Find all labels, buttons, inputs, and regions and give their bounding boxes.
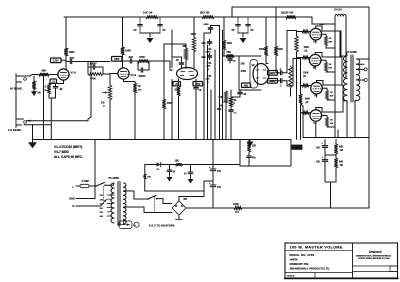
svg-text:100K: 100K xyxy=(191,34,197,36)
wire filter join a xyxy=(140,33,160,37)
switch linkage dashed xyxy=(103,186,105,204)
wire tone slider bus b xyxy=(207,45,209,140)
svg-text:V1-3 ECC83 (BRIT): V1-3 ECC83 (BRIT) xyxy=(54,145,82,149)
wire signal to volume xyxy=(73,61,111,63)
svg-text:820: 820 xyxy=(175,89,180,92)
wire choke left leg xyxy=(312,16,335,24)
wire V5 plate xyxy=(315,31,341,57)
wire V1B cathode xyxy=(124,79,136,83)
wire V5 cathode xyxy=(314,66,316,69)
wire tone vertical b xyxy=(222,30,224,140)
wire to tone node xyxy=(149,60,164,62)
wire PT primary top xyxy=(112,183,114,195)
svg-text:150K: 150K xyxy=(304,47,310,49)
svg-text:50: 50 xyxy=(251,28,254,32)
wire V1B grid xyxy=(110,74,118,86)
switch mains xyxy=(95,183,113,187)
wire OT primary ct xyxy=(346,52,347,78)
wire V4 plate xyxy=(316,26,340,31)
svg-text:225: 225 xyxy=(100,212,104,214)
inductor choke CH 3H xyxy=(334,9,346,17)
svg-text:(2): (2) xyxy=(306,102,309,104)
wire V1B plate node xyxy=(121,55,124,68)
svg-text:.22: .22 xyxy=(176,60,180,62)
svg-text:V5: V5 xyxy=(313,66,317,70)
svg-text:P: P xyxy=(234,103,236,105)
svg-text:10K: 10K xyxy=(241,64,246,66)
ground bus arrow xyxy=(247,140,254,148)
svg-text:A DIVISION OF GULF + WESTERN S: A DIVISION OF GULF + WESTERN SYSTEMS CO. xyxy=(356,255,393,258)
wire V7 cathode xyxy=(315,121,317,137)
wire B+ rail segment B xyxy=(158,16,202,18)
resistor 56K bleed b xyxy=(334,154,343,182)
svg-text:470R: 470R xyxy=(241,70,247,73)
wire PI inner xyxy=(250,60,258,89)
svg-text:50: 50 xyxy=(134,28,137,32)
label LO SENS xyxy=(8,128,22,132)
capacitor .1 PI out b xyxy=(278,79,288,88)
svg-text:1K: 1K xyxy=(329,38,332,40)
resistor 100K V1B plate xyxy=(121,47,131,55)
resistor 100K PI feed xyxy=(222,40,232,56)
svg-text:+: + xyxy=(322,142,324,145)
resistor 150K(2) grid a xyxy=(295,36,310,52)
title block scale divider xyxy=(314,273,316,278)
svg-text:2 AMP: 2 AMP xyxy=(82,180,90,183)
potentiometer master volume xyxy=(217,91,228,111)
speaker jack b xyxy=(364,79,367,82)
title block divider xyxy=(352,243,354,278)
wire tone top xyxy=(204,26,220,60)
svg-text:+: + xyxy=(322,156,324,159)
wire V2 top link xyxy=(164,44,186,61)
capacitor .00047 bright2 xyxy=(138,61,149,78)
capacitor 47n NFB xyxy=(247,152,257,166)
node voltage box PI a xyxy=(268,71,278,76)
svg-text:56K: 56K xyxy=(227,51,232,54)
svg-text:.00047: .00047 xyxy=(89,62,97,65)
svg-text:1K: 1K xyxy=(329,64,332,66)
svg-text:1K: 1K xyxy=(138,85,141,88)
svg-text:130: 130 xyxy=(100,199,104,201)
label scale xyxy=(287,275,295,278)
wire V4 cathode xyxy=(315,40,317,43)
resistor 5K6 grid stopper V4 xyxy=(297,30,311,33)
label unicord addr xyxy=(356,255,393,260)
capacitor .68 presence xyxy=(238,90,247,96)
wire LO jack to divider xyxy=(26,62,91,122)
wire tone slider bus a xyxy=(203,59,205,140)
title block small box xyxy=(390,266,398,272)
label company xyxy=(290,267,331,271)
potentiometer middle xyxy=(207,62,212,71)
svg-text:1M: 1M xyxy=(37,92,40,95)
resistor 8K2 1W on B+ rail xyxy=(200,11,214,19)
capacitor 100uF ps a xyxy=(316,140,328,160)
capacitor 10 bias a xyxy=(167,165,176,177)
rectifier bridge BR xyxy=(172,198,187,215)
wire bridge plus xyxy=(179,181,213,201)
node voltage box 175V xyxy=(51,58,62,63)
svg-text:5W: 5W xyxy=(330,95,334,97)
svg-text:V4-7 6550: V4-7 6550 xyxy=(54,150,69,154)
svg-text:K: K xyxy=(45,89,47,92)
svg-text:10K: 10K xyxy=(147,177,151,179)
resistor 100K V1A plate xyxy=(64,48,74,56)
svg-text:22K: 22K xyxy=(206,79,210,81)
svg-text:47n: 47n xyxy=(252,157,257,160)
resistor 2.7K V1A cathode xyxy=(43,84,51,95)
resistor 5K6 grid stopper V6 xyxy=(301,84,311,87)
node voltage box PI bottom xyxy=(242,83,251,87)
wire V2 grid feed xyxy=(164,61,170,69)
wire V2 plate b xyxy=(193,17,195,68)
label unicord xyxy=(369,250,381,254)
label heaters xyxy=(149,223,175,227)
node voltage box V1B plate xyxy=(112,57,123,62)
svg-text:N: N xyxy=(73,204,75,208)
capacitor .22 V2a xyxy=(172,57,184,69)
wire grid couple a xyxy=(287,31,297,73)
svg-text:GND: GND xyxy=(69,197,75,201)
svg-text:DRAWN BY: P.W.: DRAWN BY: P.W. xyxy=(290,263,309,266)
wire filter join b xyxy=(238,33,248,37)
wire right edge HT bus xyxy=(368,7,370,208)
tube V7 6550 xyxy=(310,110,322,125)
potentiometer treble xyxy=(206,48,212,57)
svg-text:8K2 1W: 8K2 1W xyxy=(200,11,210,15)
svg-text:220K: 220K xyxy=(206,52,212,54)
svg-text:1K: 1K xyxy=(330,92,333,94)
capacitor 0.1 presence xyxy=(229,107,238,140)
svg-text:.022: .022 xyxy=(201,43,206,45)
resistor 820 V2 cathode xyxy=(175,79,181,96)
resistor 100K PI plate b xyxy=(274,46,283,56)
resistor 56K PI feed xyxy=(223,51,235,58)
ground filter a xyxy=(147,38,154,43)
wire PI plates xyxy=(266,56,278,81)
svg-text:205: 205 xyxy=(100,208,104,210)
capacitor 100uF ps b xyxy=(316,156,328,182)
svg-text:56K: 56K xyxy=(339,162,344,164)
wire heater xyxy=(119,219,124,225)
label tube note xyxy=(54,145,83,159)
svg-text:14/8/76: 14/8/76 xyxy=(290,258,299,261)
wire PT sec to bridge a xyxy=(124,191,149,199)
svg-text:(2): (2) xyxy=(305,50,308,52)
capacitor 10 V2 bypass xyxy=(194,79,202,96)
resistor 100R HT xyxy=(233,203,242,214)
wire ps caps join xyxy=(325,155,336,208)
svg-text:PT-100W: PT-100W xyxy=(109,177,120,180)
svg-text:5W: 5W xyxy=(330,123,334,125)
potentiometer bass xyxy=(206,75,212,84)
wire V6 cathode xyxy=(316,94,318,97)
svg-text:.022: .022 xyxy=(128,56,133,59)
title block right rule b xyxy=(353,271,398,273)
svg-text:190V: 190V xyxy=(270,73,276,75)
resistor 10K bias drop xyxy=(144,165,152,192)
capacitor 50uF filter b xyxy=(158,17,166,33)
resistor 470R PI tail xyxy=(241,70,247,73)
svg-text:6.3 V TO HEATERS: 6.3 V TO HEATERS xyxy=(149,223,175,227)
svg-text:(2)100 1W: (2)100 1W xyxy=(281,11,294,15)
svg-text:185V: 185V xyxy=(270,81,276,83)
transformer OT-100W secondary xyxy=(357,59,360,101)
resistor 1M input xyxy=(32,76,40,95)
svg-text:.68: .68 xyxy=(233,61,237,63)
node voltage box cathode xyxy=(50,79,57,83)
fuse mains xyxy=(76,184,96,187)
wire B+ rail segment C xyxy=(214,16,286,18)
svg-text:470K: 470K xyxy=(90,77,96,80)
svg-text:.022: .022 xyxy=(201,57,206,59)
transformer OT-100W primary xyxy=(343,51,357,101)
wire V1A plate node xyxy=(61,56,66,69)
wire volume to ground xyxy=(109,100,111,140)
svg-text:68K: 68K xyxy=(42,70,47,73)
resistor 1K 5W screen V5 xyxy=(321,60,335,72)
wire OT primary top xyxy=(340,31,347,56)
wire V7 plate xyxy=(316,85,343,112)
wire bias vertical b xyxy=(300,59,302,140)
wire V1B plate supply xyxy=(122,17,124,47)
speaker jack a xyxy=(364,68,367,71)
svg-text:.0005: .0005 xyxy=(203,24,209,26)
svg-text:H.T.: H.T. xyxy=(235,211,240,214)
ground bias a xyxy=(167,177,173,182)
wire OT primary bottom xyxy=(343,101,347,138)
svg-text:10: 10 xyxy=(173,172,176,174)
capacitor 100uF main b xyxy=(209,182,222,208)
resistor 68K V2 plate xyxy=(183,46,188,60)
node voltage box PI b xyxy=(268,79,278,84)
svg-text:10K 1W: 10K 1W xyxy=(143,11,153,15)
resistor 1K 5W screen V7 xyxy=(322,116,335,128)
resistor 100K V2 plate xyxy=(191,34,197,52)
svg-text:110: 110 xyxy=(100,195,104,197)
capacitor 50uF filter d xyxy=(246,17,254,33)
svg-text:.1: .1 xyxy=(280,84,283,87)
title block title rule xyxy=(285,250,353,252)
resistor 1K 5W screen V4 xyxy=(322,34,335,48)
svg-text:22K: 22K xyxy=(207,66,211,68)
svg-text:V4: V4 xyxy=(313,40,317,44)
svg-text:50: 50 xyxy=(232,28,235,32)
svg-text:1K: 1K xyxy=(330,120,333,122)
svg-text:.68: .68 xyxy=(243,94,247,96)
capacitor .0005 treble xyxy=(203,24,213,32)
wire 470K node drop xyxy=(163,61,165,99)
svg-text:100: 100 xyxy=(217,186,222,189)
svg-text:D1: D1 xyxy=(157,169,161,171)
capacitor 10 bias b xyxy=(184,165,193,179)
capacitor .68 V1A bypass xyxy=(53,84,63,96)
svg-text:L1: L1 xyxy=(133,225,136,227)
ground chassis main xyxy=(28,140,37,149)
svg-text:100: 100 xyxy=(316,162,321,164)
svg-text:100K: 100K xyxy=(227,43,233,45)
wire bias vertical a xyxy=(296,31,298,140)
title block frame xyxy=(285,243,399,279)
svg-text:1W: 1W xyxy=(340,165,344,167)
svg-text:68K: 68K xyxy=(183,46,188,48)
tube V5 6550 xyxy=(309,54,321,69)
selector arrow xyxy=(101,200,107,206)
wire PT sec to bridge b xyxy=(124,207,173,213)
label 585V xyxy=(320,24,326,26)
svg-text:245: 245 xyxy=(100,215,104,218)
wire V2 cathode returns xyxy=(179,96,197,140)
capacitor .00047 bright xyxy=(88,62,103,69)
resistor 15K bias xyxy=(160,160,240,166)
svg-text:BR: BR xyxy=(184,198,188,201)
tube V4 6550 xyxy=(310,28,322,43)
svg-text:MODEL NO. 2203: MODEL NO. 2203 xyxy=(290,253,315,257)
wire choke right leg xyxy=(346,16,347,55)
svg-text:.68: .68 xyxy=(59,88,63,91)
svg-text:V2: V2 xyxy=(169,68,173,72)
svg-text:5K: 5K xyxy=(234,100,237,102)
pilot lamp L1 xyxy=(119,221,139,229)
svg-text:10K: 10K xyxy=(138,89,142,91)
capacitor 50uF filter a xyxy=(134,17,143,33)
wire tone vertical a xyxy=(219,26,221,140)
resistor 10K PI xyxy=(241,64,246,66)
node voltage box NFB xyxy=(292,145,302,149)
svg-text:SCALE: SCALE xyxy=(287,275,295,278)
svg-text:100: 100 xyxy=(316,148,321,150)
svg-text:75 FROST STREET, WESTBURY, N.Y: 75 FROST STREET, WESTBURY, N.Y. 11590 xyxy=(358,258,390,260)
title block right rule a xyxy=(353,265,398,267)
wire bias return xyxy=(145,191,204,197)
svg-text:100K: 100K xyxy=(69,51,75,54)
svg-text:M: M xyxy=(207,69,209,71)
svg-text:100: 100 xyxy=(217,170,222,173)
resistor 22K NFB xyxy=(247,140,256,153)
svg-text:100 W. MASTER VOLUME: 100 W. MASTER VOLUME xyxy=(290,246,343,250)
svg-text:150K: 150K xyxy=(303,73,309,75)
resistor 1K 5W screen V6 xyxy=(322,88,335,100)
wire V2 plate a xyxy=(185,44,187,69)
transformer PT-100W xyxy=(109,177,126,226)
svg-text:100R: 100R xyxy=(233,203,239,206)
resistor 100K PI plate a xyxy=(259,46,268,56)
svg-text:CH 3H: CH 3H xyxy=(334,9,342,12)
wire bright top xyxy=(87,62,89,68)
wire bridge minus xyxy=(176,215,183,220)
wire PI feed supply xyxy=(223,17,225,40)
resistor 5K6 grid stopper V5 xyxy=(297,56,311,59)
capacitor .022 V1A coupling xyxy=(66,57,74,63)
input jack LO SENS xyxy=(16,117,26,128)
label title xyxy=(290,246,343,250)
input jack HI SENS xyxy=(16,74,39,85)
tube V1A xyxy=(58,69,76,80)
svg-text:22K: 22K xyxy=(252,146,257,148)
wire HT bus right xyxy=(242,207,369,209)
resistor 10K V1B cathode xyxy=(133,83,142,93)
wire V1B cathode return xyxy=(134,93,136,140)
wire LO jack lower xyxy=(24,124,51,126)
capacitor .68 PI feed xyxy=(228,56,237,63)
resistor 470K bright xyxy=(88,67,110,80)
potentiometer 1M volume xyxy=(101,85,112,108)
svg-text:50: 50 xyxy=(163,28,166,32)
wire V1A cathode xyxy=(49,80,64,83)
svg-text:.022: .022 xyxy=(69,57,74,60)
wire presence top xyxy=(231,90,240,97)
wire V6 plate xyxy=(317,57,343,85)
ground filter b xyxy=(240,38,247,43)
svg-text:OT-100W: OT-100W xyxy=(346,51,357,54)
wire B+ rail segment A xyxy=(64,16,146,18)
diode bias xyxy=(145,162,161,170)
resistor PI bias chain xyxy=(289,66,292,96)
svg-text:1W: 1W xyxy=(340,150,344,152)
wire cathode return xyxy=(49,94,56,140)
wire screen bus xyxy=(334,24,336,138)
svg-text:V7: V7 xyxy=(313,121,317,125)
svg-text:V6: V6 xyxy=(314,94,318,98)
potentiometer presence xyxy=(224,97,237,107)
node voltage box V2b xyxy=(193,82,203,86)
svg-text:100K: 100K xyxy=(125,50,131,53)
resistor 5K6 grid stopper V7 xyxy=(301,111,311,114)
svg-text:10: 10 xyxy=(184,174,187,176)
svg-text:.00047: .00047 xyxy=(138,75,146,78)
capacitor .022 V1B coupling xyxy=(123,56,134,63)
svg-text:10: 10 xyxy=(199,89,202,92)
wire grid couple b xyxy=(287,59,301,87)
selector taps xyxy=(100,195,113,218)
label drawn xyxy=(290,263,309,266)
wire V1A plate supply xyxy=(65,17,67,48)
svg-text:(2): (2) xyxy=(303,76,306,78)
label GND xyxy=(69,197,75,201)
wire NFB loop xyxy=(240,140,291,167)
svg-text:V1 B: V1 B xyxy=(131,73,137,77)
wire bias line xyxy=(301,104,370,138)
svg-text:M.V.: M.V. xyxy=(217,108,222,111)
ground 1M xyxy=(31,90,37,97)
svg-text:100K: 100K xyxy=(278,49,284,51)
svg-text:5W: 5W xyxy=(329,67,333,69)
wire tone slider bus c xyxy=(210,90,212,140)
svg-text:40V: 40V xyxy=(244,84,249,87)
wire jack grounds xyxy=(15,84,17,117)
capacitor 50uF filter c xyxy=(232,17,241,33)
wire earth xyxy=(76,140,95,199)
capacitor .1 PI out a xyxy=(278,68,288,75)
svg-text:150K: 150K xyxy=(305,99,311,101)
wire HT bus left xyxy=(186,207,234,209)
wire grid divider drop xyxy=(43,75,45,140)
svg-text:Unicord: Unicord xyxy=(369,250,381,254)
resistor 10K 1W on B+ rail xyxy=(143,11,158,19)
title block scale rule xyxy=(285,272,353,274)
label HI SENS xyxy=(10,86,23,90)
svg-text:5W: 5W xyxy=(329,41,333,43)
svg-text:V1 A: V1 A xyxy=(71,71,77,75)
wire ground bus xyxy=(33,125,292,140)
label model xyxy=(290,253,315,257)
svg-text:180V: 180V xyxy=(114,59,120,61)
label L xyxy=(73,185,75,189)
wire B+ top rail xyxy=(232,7,369,17)
node voltage box V2a xyxy=(173,82,181,86)
svg-text:0.1: 0.1 xyxy=(234,113,238,115)
